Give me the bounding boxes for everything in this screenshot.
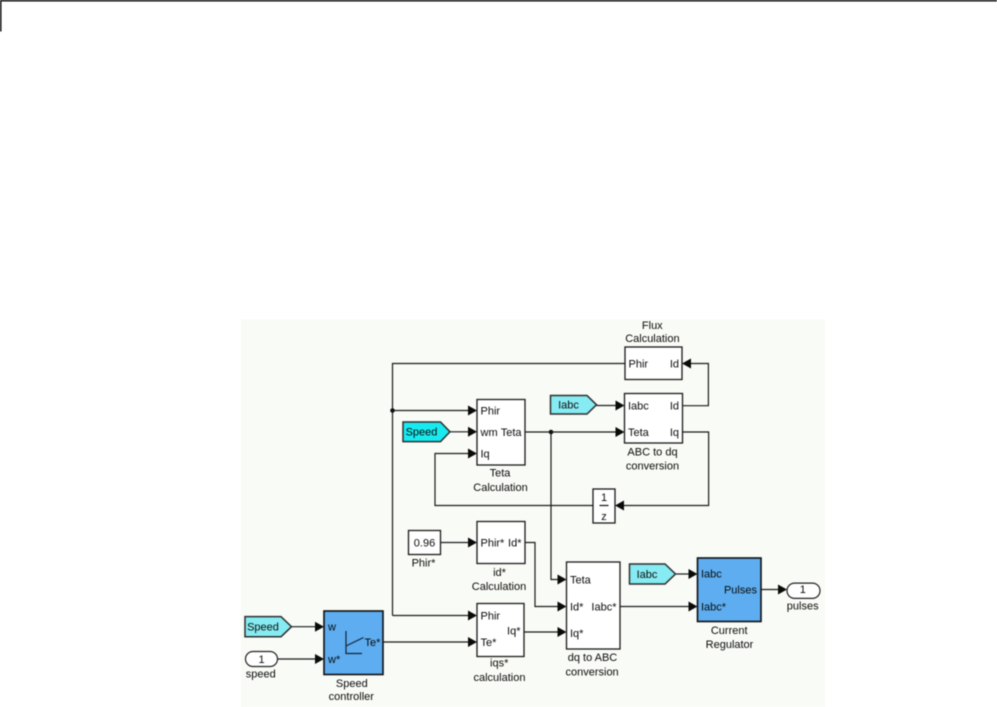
svg-text:Speed: Speed bbox=[406, 427, 438, 439]
svg-text:dq to ABC: dq to ABC bbox=[568, 652, 618, 664]
svg-text:Flux: Flux bbox=[642, 320, 663, 332]
svg-text:Teta: Teta bbox=[628, 427, 650, 439]
svg-text:Phir: Phir bbox=[629, 358, 649, 370]
svg-text:controller: controller bbox=[329, 691, 375, 703]
svg-text:Te*: Te* bbox=[365, 637, 382, 649]
svg-text:Iabc: Iabc bbox=[558, 400, 579, 412]
svg-text:Id*: Id* bbox=[508, 537, 522, 549]
svg-text:ABC to dq: ABC to dq bbox=[627, 447, 677, 459]
svg-text:Pulses: Pulses bbox=[724, 584, 758, 596]
svg-text:Speed: Speed bbox=[336, 678, 368, 690]
svg-text:Speed: Speed bbox=[247, 622, 279, 634]
svg-text:id*: id* bbox=[493, 567, 507, 579]
svg-text:Id: Id bbox=[670, 358, 679, 370]
svg-text:pulses: pulses bbox=[787, 601, 819, 613]
svg-text:Iq*: Iq* bbox=[570, 628, 584, 640]
svg-text:w: w bbox=[327, 621, 336, 633]
svg-text:Phir: Phir bbox=[481, 405, 501, 417]
svg-text:Regulator: Regulator bbox=[706, 639, 754, 651]
svg-text:z: z bbox=[601, 511, 607, 523]
svg-text:Iabc: Iabc bbox=[701, 568, 722, 580]
svg-text:Id: Id bbox=[670, 400, 679, 412]
svg-text:Calculation: Calculation bbox=[472, 581, 526, 593]
svg-text:wm: wm bbox=[480, 427, 498, 439]
svg-text:Calculation: Calculation bbox=[473, 482, 527, 494]
svg-text:Phir: Phir bbox=[481, 610, 501, 622]
svg-text:Iabc: Iabc bbox=[637, 569, 658, 581]
svg-text:1: 1 bbox=[258, 654, 264, 666]
svg-text:w*: w* bbox=[327, 654, 341, 666]
svg-text:Current: Current bbox=[711, 625, 748, 637]
svg-text:conversion: conversion bbox=[565, 667, 618, 679]
svg-text:Te*: Te* bbox=[481, 637, 498, 649]
svg-text:conversion: conversion bbox=[626, 461, 679, 473]
svg-text:Teta: Teta bbox=[570, 574, 592, 586]
svg-text:Iq: Iq bbox=[481, 448, 490, 460]
svg-text:iqs*: iqs* bbox=[490, 658, 509, 670]
svg-text:Iq*: Iq* bbox=[507, 625, 521, 637]
svg-text:Phir*: Phir* bbox=[481, 537, 506, 549]
svg-text:Teta: Teta bbox=[490, 468, 512, 480]
svg-text:Iabc: Iabc bbox=[628, 400, 649, 412]
svg-text:speed: speed bbox=[246, 669, 276, 681]
svg-text:0.96: 0.96 bbox=[414, 537, 435, 549]
svg-text:Iabc*: Iabc* bbox=[701, 601, 727, 613]
svg-text:1: 1 bbox=[800, 584, 806, 596]
svg-text:calculation: calculation bbox=[474, 672, 526, 684]
svg-text:Iabc*: Iabc* bbox=[591, 601, 617, 613]
svg-text:Teta: Teta bbox=[501, 427, 523, 439]
svg-text:Phir*: Phir* bbox=[412, 557, 437, 569]
svg-text:Iq: Iq bbox=[670, 427, 679, 439]
svg-text:1: 1 bbox=[601, 492, 607, 504]
svg-text:Id*: Id* bbox=[570, 601, 584, 613]
svg-text:Calculation: Calculation bbox=[625, 333, 679, 345]
